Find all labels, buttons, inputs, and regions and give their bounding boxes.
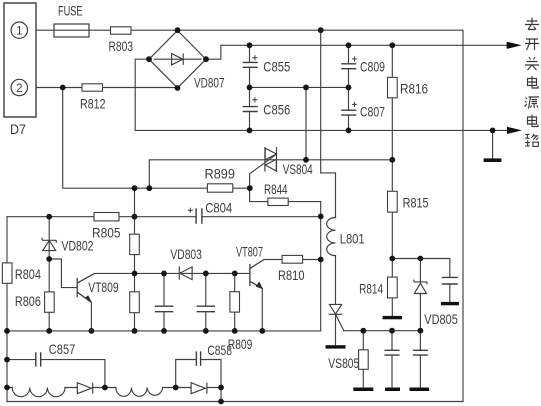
resistor R810 (282, 255, 303, 263)
ground bar R814 (383, 316, 402, 319)
svg-text:1: 1 (16, 26, 22, 38)
wire pin1 to bridge top / right rail top (27, 30, 464, 401)
zener diode VD802 (42, 238, 56, 251)
connector D7 (4, 3, 36, 117)
wire C855/C856 leads (249, 45, 251, 130)
diode VD803 (179, 266, 192, 279)
svg-text:C856: C856 (263, 103, 290, 118)
capacitor C809 (341, 64, 356, 69)
wire VS804 row (149, 160, 392, 188)
label chinese 源 (525, 97, 539, 109)
wire bottom inductor row (7, 387, 221, 389)
resistor R812 (82, 84, 103, 91)
svg-text:R809: R809 (228, 337, 253, 352)
svg-text:R803: R803 (109, 39, 134, 54)
inductor LF2 arcs (116, 388, 163, 397)
svg-text:FUSE: FUSE (58, 4, 83, 19)
label chinese 电2 (528, 115, 539, 127)
svg-text:VD807: VD807 (194, 75, 225, 90)
label chinese 关 (525, 57, 539, 70)
wire right bus (344, 330, 421, 332)
wire x134.5 chain vertical (134, 188, 136, 331)
arrow output 2 (507, 127, 522, 134)
ground bar C449 (441, 302, 459, 305)
resistor R809 vertical (230, 292, 240, 312)
resistor R806 (45, 292, 55, 312)
resistor R814 (388, 277, 398, 298)
wire L801 feed from top rail (321, 30, 336, 217)
wire VT807 emitter down (261, 289, 263, 331)
svg-text:2: 2 (16, 83, 22, 95)
wire R814 row to cap (392, 258, 450, 260)
wire VT807 collector to R810 to node (264, 259, 321, 261)
wire C855/C856 midpoint link (250, 86, 349, 88)
wire L801 to VS805 (335, 256, 337, 305)
wire C809/C807 leads (348, 45, 350, 130)
bridge rectifier VD807 (149, 31, 206, 88)
svg-text:VD802: VD802 (62, 238, 94, 253)
svg-text:C804: C804 (205, 200, 232, 215)
wire VS805 resistor branch (362, 331, 364, 388)
resistor R803 (111, 27, 132, 34)
triac VS804 (265, 147, 277, 171)
wire VT809 collector row to VT807 base (95, 272, 250, 274)
capacitor Cb1 bottom (385, 350, 400, 355)
wire VD802 to VT809 base (49, 259, 77, 288)
resistor R844 (268, 198, 288, 205)
zener diode VD805 (414, 280, 427, 294)
arrow output 1 (507, 42, 522, 49)
capacitor C855 (243, 62, 258, 67)
resistor R-VS805 (359, 350, 369, 370)
wire bottom cap x420 branch (419, 331, 421, 388)
svg-text:R899: R899 (205, 167, 236, 182)
capacitor C449 right (442, 277, 458, 284)
svg-text:VS805: VS805 (328, 356, 359, 371)
svg-text:R804: R804 (15, 267, 41, 282)
wire C857 row (7, 360, 105, 388)
wire DC+ rail from bridge right vertex to arrow (206, 45, 507, 59)
svg-text:R810: R810 (278, 268, 305, 283)
wire DC- rail from bridge left vertex to arrow 2 (135, 59, 507, 130)
wire R809 branch (234, 273, 236, 331)
wire VD802 branch (48, 217, 50, 331)
resistor R805 (94, 213, 119, 221)
capacitor C807 (341, 110, 356, 115)
svg-text:C807: C807 (360, 104, 385, 119)
capacitor Cb2 bottom (413, 350, 428, 355)
diode VDF2 bottom (191, 383, 207, 394)
ground bar bottom 2 (385, 388, 400, 392)
capacitor C857 (36, 352, 41, 366)
diode VDF1 bottom (77, 383, 92, 394)
transistor VT809 (77, 273, 94, 302)
ground bar bottom 1 (353, 388, 373, 392)
svg-text:R805: R805 (92, 226, 121, 241)
ground bar VS805 (326, 345, 346, 348)
wire C858 row (176, 360, 221, 402)
wire VT809 emitter down (90, 302, 92, 331)
svg-text:C857: C857 (49, 342, 76, 357)
svg-text:VD803: VD803 (170, 247, 202, 262)
inductor L801 arcs (327, 218, 336, 256)
wire cap449 branch (449, 259, 451, 302)
svg-text:VS804: VS804 (283, 162, 313, 177)
svg-text:R816: R816 (400, 82, 428, 97)
wire VS805 gate diagonal (336, 314, 344, 330)
svg-text:VD805: VD805 (424, 312, 458, 327)
wire VS805 cathode down to bar (335, 314, 337, 345)
svg-text:C809: C809 (360, 60, 385, 75)
wire ground bus left (7, 330, 321, 332)
wire bottom cap x392 branch (391, 331, 393, 388)
capacitor C856 (243, 107, 258, 112)
resistor R804 (2, 263, 12, 283)
inductor LF1 arcs (12, 388, 65, 397)
capacitor C804 (196, 208, 202, 224)
resistor R813 upper (130, 234, 140, 254)
svg-text:L801: L801 (340, 231, 365, 246)
ground at output 2 (484, 158, 502, 162)
svg-text:VT809: VT809 (88, 280, 119, 295)
resistor R808 lower (130, 292, 140, 313)
wire R816/R815/R814 vertical (391, 45, 393, 316)
label chinese 电 (528, 76, 539, 88)
wire cap C2 branch (205, 273, 207, 331)
wire cap C1 branch (163, 273, 165, 331)
svg-text:R844: R844 (264, 182, 288, 197)
svg-text:R812: R812 (80, 97, 106, 112)
wire bottom border (7, 401, 463, 403)
wire arrow2 ground drop (492, 130, 494, 158)
label chinese 去 (525, 18, 539, 30)
wire pin2 branch down to R899 row (63, 88, 250, 189)
wire pin2 to bridge bottom vertex (27, 87, 178, 89)
svg-text:R806: R806 (15, 294, 41, 309)
resistor R816 (388, 77, 398, 97)
svg-text:D7: D7 (10, 122, 26, 137)
svg-text:R814: R814 (359, 282, 383, 297)
thyristor VS805 (329, 304, 343, 314)
wire VS804 gate down to R844 row (250, 154, 321, 331)
wire VD805 branch (419, 259, 421, 331)
pin 2 (11, 79, 27, 95)
label chinese 路 (525, 134, 538, 146)
label chinese 开 (525, 39, 539, 50)
wire node x306 vertical (305, 87, 307, 159)
capacitor C1 mid (155, 306, 174, 312)
capacitor C2 mid (197, 306, 216, 312)
svg-text:R815: R815 (403, 195, 429, 210)
ground bar bottom 3 (410, 388, 430, 392)
resistor R899 (207, 184, 232, 192)
svg-text:VT807: VT807 (236, 244, 263, 259)
resistor R815 (388, 191, 398, 212)
transistor VT807 (250, 260, 264, 289)
fuse FUSE (54, 24, 89, 37)
wire R805/C804 row (7, 216, 321, 218)
svg-text:C855: C855 (263, 59, 290, 74)
wire left border vertical (6, 217, 8, 402)
capacitor C858 (196, 351, 200, 365)
pin 1 (11, 22, 27, 38)
